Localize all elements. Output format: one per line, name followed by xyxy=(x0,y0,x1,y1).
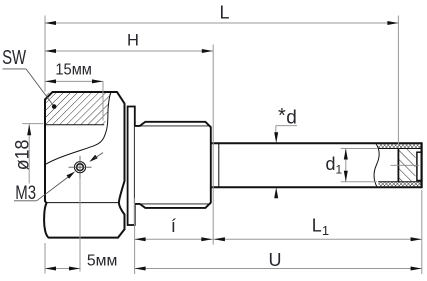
*d leader and arrows xyxy=(276,125,297,127)
dimension U line xyxy=(135,268,422,270)
M3 opposite arrow xyxy=(89,155,98,162)
svg-text:L1: L1 xyxy=(312,216,329,238)
dimension L1 line xyxy=(214,238,422,240)
extension line collar face (x=134.6 bottom) xyxy=(134,198,136,274)
M3 leader arrow xyxy=(67,172,76,179)
M3 hole centerline down xyxy=(79,179,81,272)
bore line bottom xyxy=(378,181,421,183)
extension line tube tip (x=421.8 bottom) xyxy=(421,190,423,274)
bore line top xyxy=(378,148,421,150)
sensor element xyxy=(417,152,422,180)
M3 leader underline xyxy=(14,200,37,202)
svg-text:15мм: 15мм xyxy=(55,61,92,78)
hex head section hatch xyxy=(46,93,112,125)
thread minor diameter line top xyxy=(141,125,211,127)
tube break curve xyxy=(374,143,379,187)
dimension 15mm line xyxy=(45,80,103,82)
svg-text:SW: SW xyxy=(2,47,26,69)
svg-text:í: í xyxy=(171,216,176,236)
threaded section xyxy=(135,122,211,208)
extension line right of L (x=398.4) xyxy=(397,16,399,149)
svg-text:H: H xyxy=(127,32,139,50)
dimension 5mm line xyxy=(45,268,80,270)
SW leader line xyxy=(26,69,54,107)
axis centerline stub xyxy=(391,164,420,166)
svg-text:ø18: ø18 xyxy=(13,140,34,171)
dimension L line xyxy=(45,22,398,24)
hex head outline xyxy=(44,92,124,238)
dimension o18 line xyxy=(28,124,30,183)
tube wall hatched strip top xyxy=(379,144,422,148)
bore line (internal bore top) xyxy=(45,124,104,126)
SW leader underline xyxy=(3,68,27,70)
dimension H line xyxy=(45,50,213,52)
thread minor diameter line bottom xyxy=(141,203,211,205)
dimension d1 extensions xyxy=(341,148,377,150)
M3 hole crosshair xyxy=(69,166,92,168)
svg-text:5мм: 5мм xyxy=(87,252,118,269)
dimension o18 extension xyxy=(22,123,43,125)
dimension d1 line xyxy=(345,149,347,182)
svg-text:L: L xyxy=(220,2,230,22)
M3 leader line xyxy=(37,176,70,201)
SW leader dot xyxy=(52,104,57,109)
tube right end face xyxy=(421,142,423,188)
svg-text:U: U xyxy=(269,250,282,270)
probe tube outline xyxy=(211,143,422,187)
hex lower face line xyxy=(45,202,119,204)
extension line thread end (x=212.8) xyxy=(212,45,214,245)
collar (washer flange) xyxy=(128,107,135,226)
M3 set screw hole xyxy=(74,162,85,173)
dimension i line xyxy=(135,238,213,240)
svg-text:*: * xyxy=(278,105,286,127)
extension line hex left bottom (x=45) xyxy=(44,243,46,274)
tube wall hatched strip bottom xyxy=(379,182,422,186)
tube weld line xyxy=(218,143,220,187)
potting block cross-hatch xyxy=(398,149,415,182)
break curve (partial section boundary) xyxy=(45,92,111,165)
extension line left (x=45 top) xyxy=(44,16,46,92)
